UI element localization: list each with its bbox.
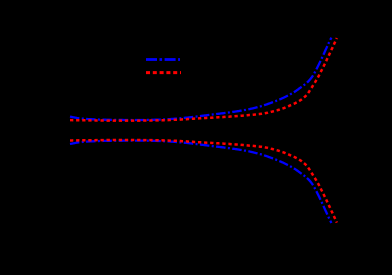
upper blue dash-dot curve: [70, 38, 331, 120]
lower blue dash-dot curve: [70, 141, 331, 223]
lower red dotted curve: [70, 140, 337, 223]
legend red dotted sample: [146, 71, 181, 74]
legend blue dash-dot sample: [146, 58, 180, 61]
upper red dotted curve: [70, 38, 337, 121]
